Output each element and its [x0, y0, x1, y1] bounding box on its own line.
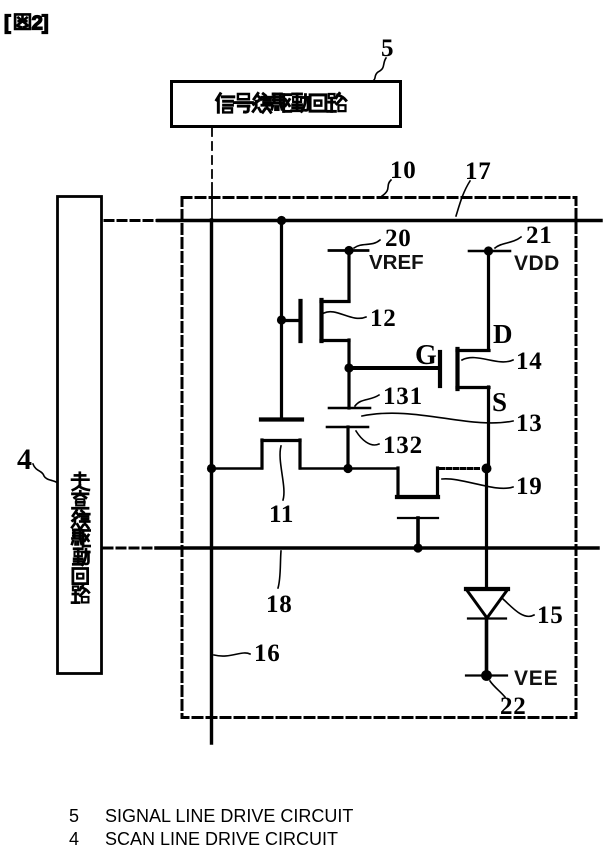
gate feed wire from scan line 1	[280, 220, 283, 417]
junction node G	[344, 363, 353, 372]
svg-text:16: 16	[254, 640, 281, 667]
signal line 16 dashed segment from driver	[211, 128, 213, 183]
figure label [Zu 2]	[4, 12, 48, 35]
scan line 2 (net 18) dashed segment	[104, 547, 156, 550]
svg-text:VREF: VREF	[369, 251, 424, 274]
svg-text:10: 10	[390, 157, 417, 184]
signal line drive circuit text (shingousen kudou kairo)	[217, 93, 346, 112]
label 20 (leader)	[354, 225, 412, 252]
node G wire	[349, 366, 438, 370]
label 13 (leader)	[362, 410, 543, 437]
label 21 (leader)	[495, 222, 553, 249]
svg-text:131: 131	[383, 383, 423, 410]
signal line 16 main vertical wire	[210, 220, 213, 743]
auxiliary capacitor 19 bottom plate	[398, 517, 438, 519]
svg-text:132: 132	[383, 432, 423, 459]
label 17 (leader)	[456, 158, 492, 216]
LED 15	[466, 589, 508, 619]
label 132 (leader)	[356, 431, 423, 459]
svg-text:[: [	[4, 12, 11, 35]
auxiliary capacitor 19 lead to scan line 2	[416, 518, 420, 548]
LED cathode wire	[485, 618, 489, 676]
svg-text:19: 19	[516, 473, 543, 500]
svg-text:14: 14	[516, 348, 543, 375]
label 131 (leader)	[355, 383, 423, 410]
scan line drive circuit text (sousasen kudou kairo)	[72, 473, 90, 603]
capacitor 13 top lead	[347, 368, 350, 408]
capacitor 13 upper electrode 131	[329, 407, 370, 410]
transistor 14	[440, 251, 489, 468]
label 19 (leader)	[442, 473, 543, 500]
transistor 12	[281, 250, 349, 368]
label 14 (leader)	[462, 348, 543, 375]
junction on scan line 1	[277, 216, 286, 225]
label 4 (leader)	[17, 443, 56, 482]
caption line for 5	[69, 806, 79, 827]
svg-text:11: 11	[269, 501, 294, 528]
junction capacitor bottom node	[343, 464, 352, 473]
label 22 (leader)	[490, 681, 527, 720]
VEE terminal bar 22	[466, 670, 507, 681]
svg-text:VEE: VEE	[514, 667, 558, 690]
svg-text:5: 5	[381, 35, 394, 62]
caption line for 4	[69, 829, 79, 850]
svg-text:22: 22	[500, 693, 527, 720]
signal line drive circuit box	[172, 82, 401, 127]
svg-text:G: G	[415, 340, 438, 371]
junction on scan line 2	[413, 543, 422, 552]
svg-text:S: S	[492, 387, 508, 417]
svg-text:18: 18	[266, 591, 293, 618]
scan line 1 (net 17) dashed segment	[105, 219, 158, 222]
label 16 (leader)	[214, 640, 281, 667]
label 15 (leader)	[503, 599, 564, 629]
VREF terminal bar 20	[329, 246, 368, 255]
VDD terminal bar 21	[469, 246, 510, 255]
junction on signal line	[207, 464, 216, 473]
junction anode node	[482, 464, 492, 474]
dotted wire segment to node	[440, 467, 481, 470]
auxiliary capacitor 19 top plate wiring	[348, 468, 438, 497]
svg-text:VDD: VDD	[514, 252, 560, 275]
label 12 (leader)	[324, 305, 397, 332]
svg-text:12: 12	[370, 305, 397, 332]
transistor 11	[211, 420, 348, 469]
LED branch wire	[485, 468, 488, 589]
label 11 (leader)	[269, 446, 294, 528]
capacitor 13 lower electrode 132	[327, 426, 368, 429]
scan line 1 (net 17) solid wire	[158, 219, 601, 223]
scan line drive circuit box	[58, 197, 102, 674]
capacitor 13 bottom lead	[346, 427, 349, 468]
svg-text:D: D	[493, 319, 513, 349]
pixel boundary dashed box 10	[182, 198, 576, 718]
svg-text:21: 21	[526, 222, 553, 249]
signal line 16 thin solid segment	[211, 183, 213, 220]
svg-text:4: 4	[17, 443, 33, 476]
svg-text:15: 15	[537, 602, 564, 629]
scan line 2 (net 18) solid wire	[156, 546, 598, 550]
svg-text:17: 17	[465, 158, 492, 185]
junction gate tap node	[277, 315, 286, 324]
svg-text:2]: 2]	[32, 12, 48, 35]
svg-text:20: 20	[385, 225, 412, 252]
label 5 (leader)	[374, 35, 394, 80]
label 10 (leader)	[382, 157, 417, 196]
label 18 (leader)	[266, 551, 293, 618]
svg-text:13: 13	[516, 410, 543, 437]
